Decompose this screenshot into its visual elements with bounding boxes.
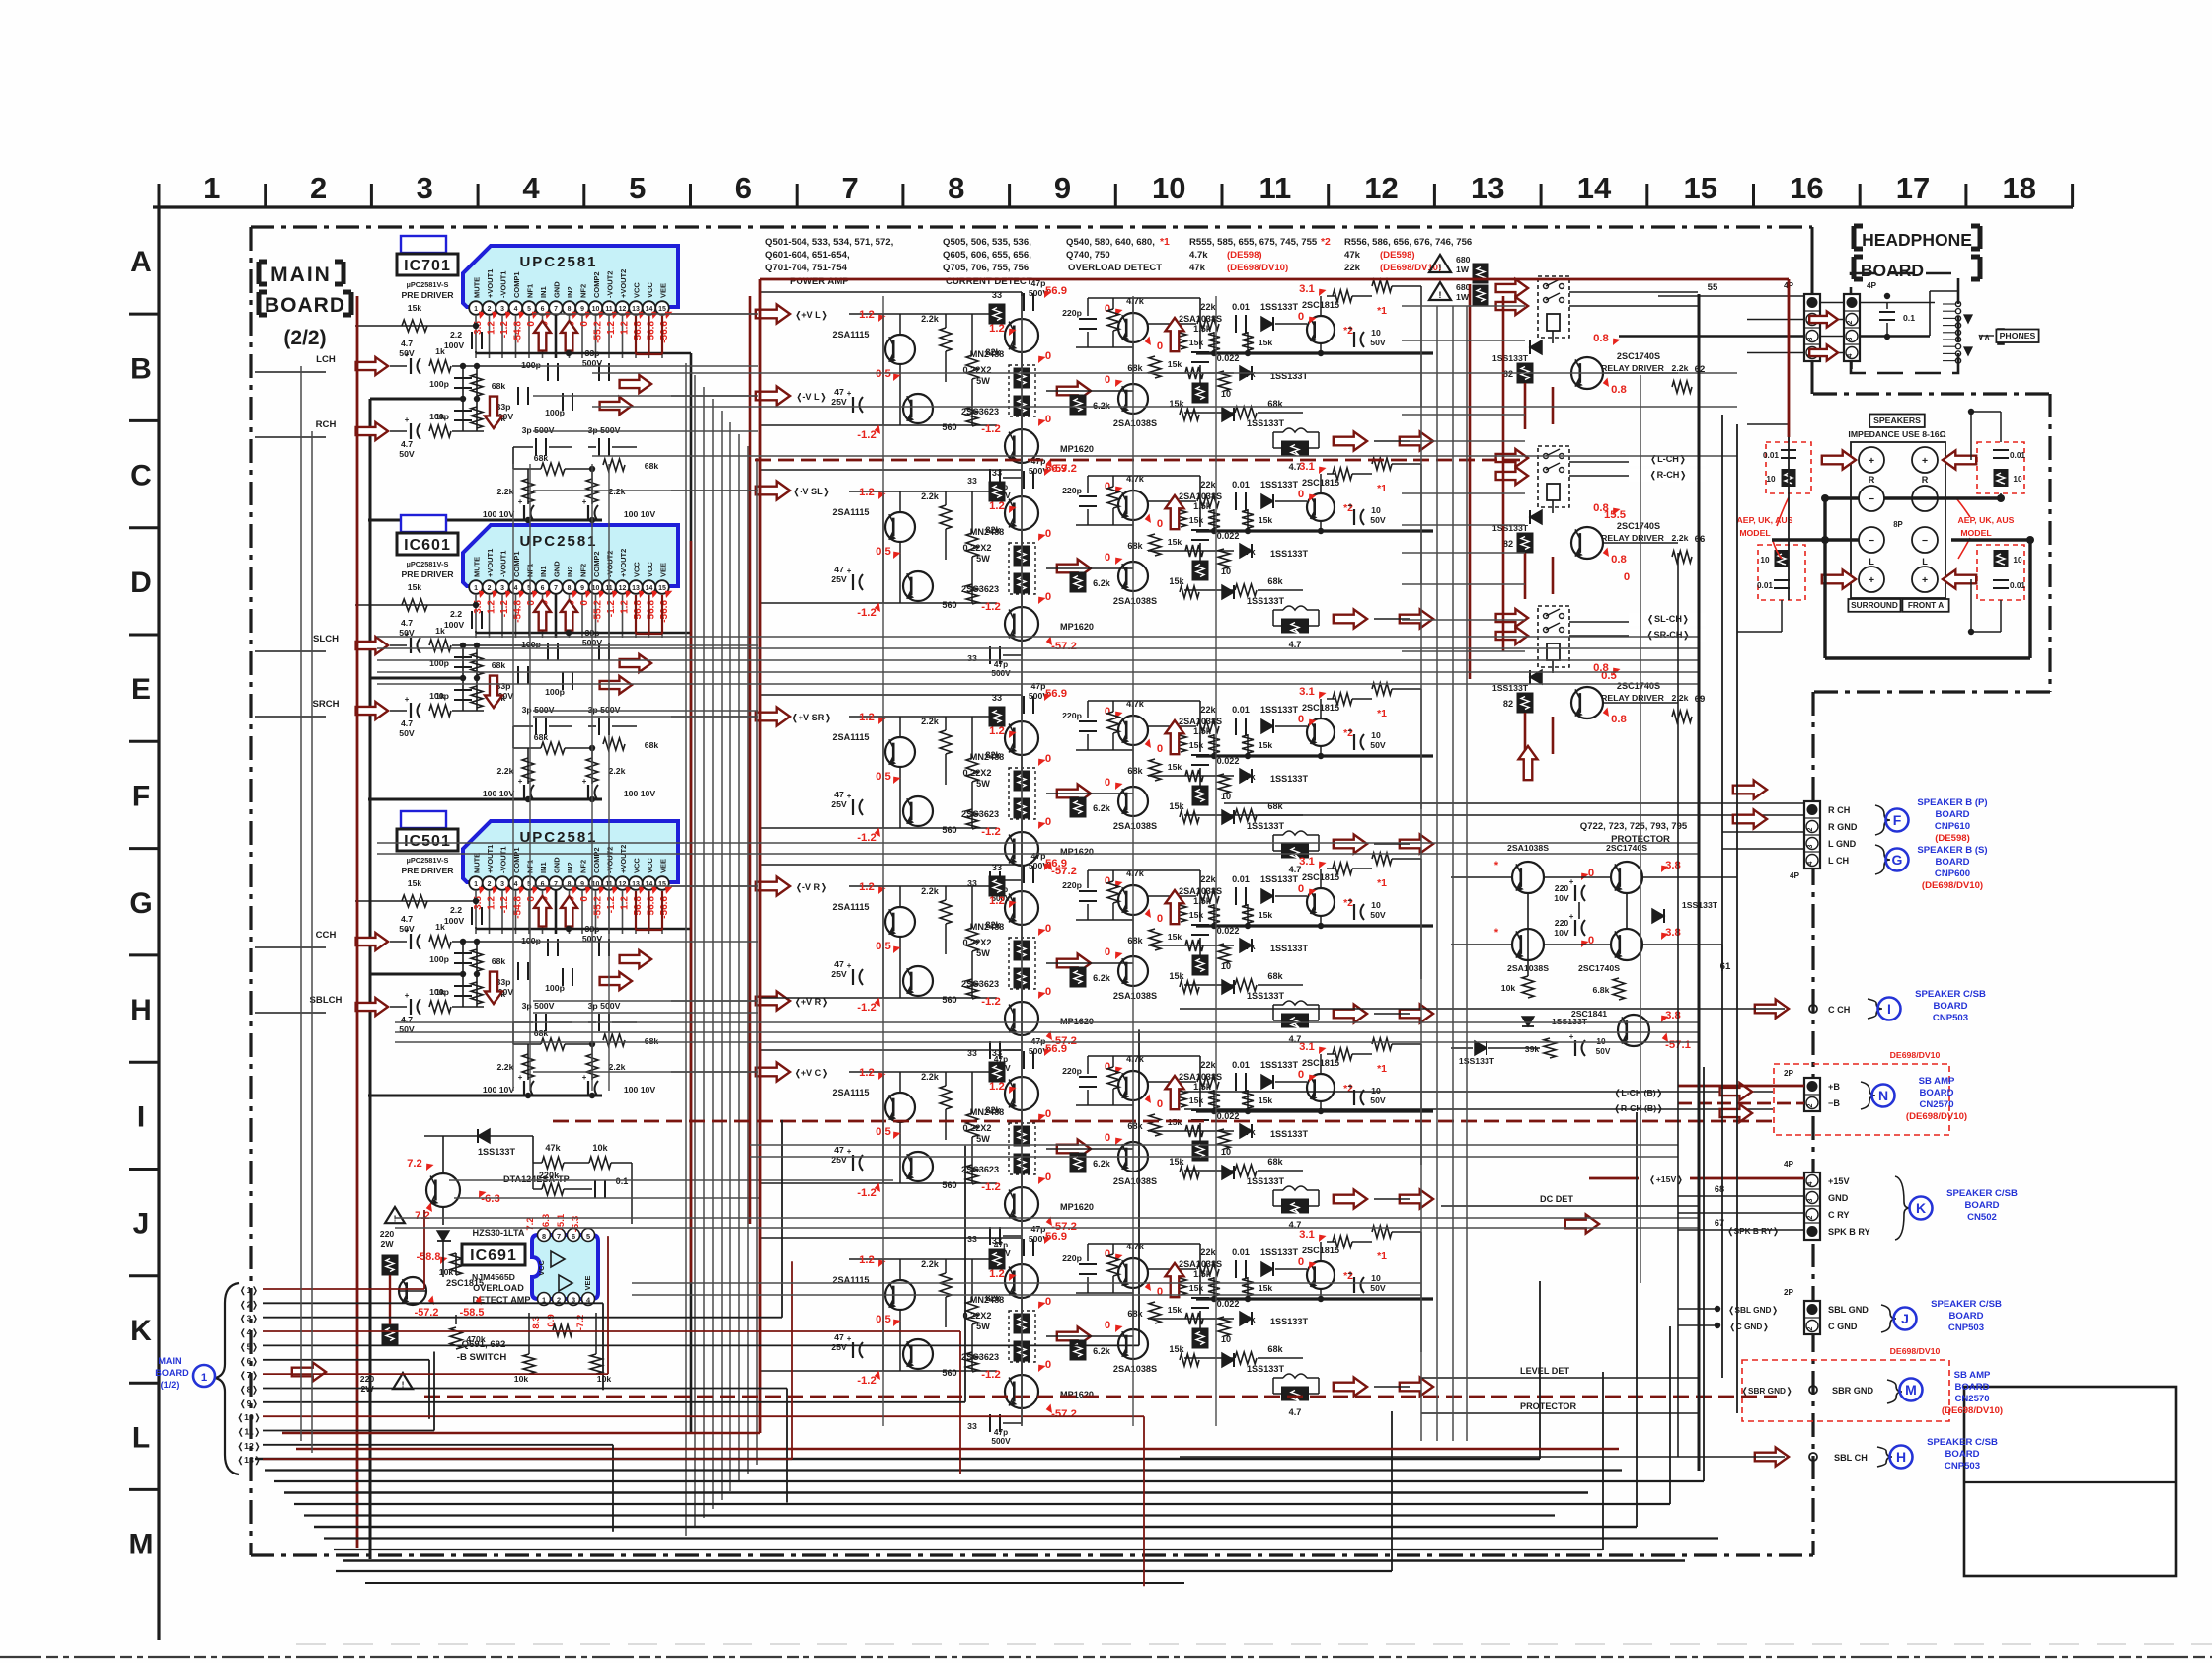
svg-text:6.2k: 6.2k [1093, 1346, 1111, 1356]
svg-text:560: 560 [942, 422, 956, 432]
svg-text:FRONT A: FRONT A [1908, 601, 1944, 610]
svg-text:220p: 220p [1062, 880, 1082, 890]
svg-text:22k: 22k [1200, 705, 1216, 715]
svg-text:68k: 68k [534, 453, 549, 463]
svg-text:10: 10 [592, 585, 600, 592]
svg-text:3: 3 [1807, 1198, 1814, 1202]
svg-text:R GND: R GND [1828, 822, 1858, 832]
svg-text:MUTE: MUTE [473, 277, 482, 298]
svg-text:Q722, 723, 725, 793, 795: Q722, 723, 725, 793, 795 [1580, 821, 1688, 832]
svg-text:0.01: 0.01 [1232, 1247, 1250, 1257]
svg-text:-54.8: -54.8 [513, 896, 524, 919]
svg-text:+: + [518, 777, 523, 786]
svg-text:SBLCH: SBLCH [310, 995, 343, 1006]
svg-text:+VOUT2: +VOUT2 [619, 845, 628, 873]
svg-text:MP1620: MP1620 [1060, 1017, 1094, 1026]
svg-text:+: + [1348, 1082, 1353, 1091]
svg-text:68k: 68k [1127, 1309, 1143, 1319]
svg-text:VEE: VEE [659, 283, 668, 298]
svg-text:1SS133T: 1SS133T [1492, 353, 1529, 363]
svg-text:MAIN: MAIN [158, 1356, 181, 1366]
svg-text:OVERLOAD DETECT: OVERLOAD DETECT [1068, 263, 1162, 273]
svg-text:13: 13 [632, 881, 640, 888]
svg-text:1k: 1k [435, 987, 445, 997]
svg-text:L GND: L GND [1828, 839, 1857, 849]
svg-text:13: 13 [632, 306, 640, 313]
svg-text:68k: 68k [645, 1036, 659, 1046]
svg-text:3: 3 [500, 585, 504, 592]
svg-text:22k: 22k [1200, 302, 1216, 312]
svg-text:68k: 68k [534, 1028, 549, 1038]
svg-text:12: 12 [1364, 171, 1398, 205]
svg-text:0.8: 0.8 [1611, 554, 1627, 566]
svg-text:-B SWITCH: -B SWITCH [457, 1352, 507, 1363]
svg-text:(DE598): (DE598) [1935, 833, 1970, 844]
svg-text:2.2k: 2.2k [497, 487, 514, 496]
svg-text:❬+V SR❭: ❬+V SR❭ [791, 713, 832, 723]
svg-text:❬7❭: ❬7❭ [239, 1370, 258, 1381]
svg-text:❬1❭: ❬1❭ [239, 1285, 258, 1296]
svg-text:SBR GND: SBR GND [1832, 1386, 1873, 1396]
svg-text:10k: 10k [439, 1267, 454, 1277]
svg-text:PRE DRIVER: PRE DRIVER [401, 866, 454, 875]
svg-text:3.1: 3.1 [1299, 283, 1315, 295]
svg-text:❬-V R❭: ❬-V R❭ [795, 882, 828, 893]
svg-text:DE698/DV10: DE698/DV10 [1890, 1050, 1941, 1060]
svg-text:56.8: 56.8 [633, 321, 644, 340]
svg-text:1.2: 1.2 [859, 487, 875, 498]
svg-text:+15V: +15V [1828, 1176, 1850, 1186]
svg-text:0.01: 0.01 [1232, 1060, 1250, 1070]
svg-text:SBL GND: SBL GND [1828, 1305, 1869, 1315]
svg-text:2: 2 [1847, 320, 1854, 324]
svg-text:1SS133T: 1SS133T [1270, 549, 1308, 559]
svg-text:0.01: 0.01 [1232, 480, 1250, 490]
svg-text:*1: *1 [1377, 306, 1387, 317]
svg-text:82: 82 [1503, 539, 1513, 549]
svg-text:33: 33 [992, 1048, 1002, 1058]
svg-text:❬SR-CH❭: ❬SR-CH❭ [1646, 630, 1690, 641]
svg-text:2SA1115: 2SA1115 [832, 1088, 869, 1097]
svg-text:56.8: 56.8 [633, 600, 644, 620]
svg-text:Q540, 580, 640, 680,: Q540, 580, 640, 680, [1066, 237, 1155, 248]
svg-text:❬8❭: ❬8❭ [239, 1385, 258, 1396]
svg-text:C GND: C GND [1828, 1322, 1858, 1331]
svg-text:-56.6: -56.6 [659, 600, 670, 623]
svg-text:4: 4 [514, 881, 518, 888]
svg-text:❬R-CH❭: ❬R-CH❭ [1649, 470, 1687, 481]
svg-text:-55.2: -55.2 [593, 321, 604, 343]
svg-text:0: 0 [1045, 923, 1051, 935]
svg-text:10V: 10V [1554, 893, 1569, 903]
svg-text:R555, 585, 655, 675, 745, 755: R555, 585, 655, 675, 745, 755 [1189, 237, 1318, 248]
svg-text:50V: 50V [399, 728, 415, 738]
svg-text:50V: 50V [1370, 910, 1386, 920]
svg-text:MUTE: MUTE [473, 853, 482, 873]
svg-text:1k: 1k [435, 691, 445, 701]
svg-text:47: 47 [834, 959, 844, 969]
svg-text:1SS133T: 1SS133T [1270, 774, 1308, 784]
svg-text:0: 0 [1157, 1286, 1163, 1298]
svg-text:-1.2: -1.2 [499, 896, 510, 914]
svg-text:2: 2 [488, 306, 492, 313]
svg-text:M: M [1905, 1382, 1917, 1398]
svg-text:0.01: 0.01 [2010, 581, 2025, 590]
svg-text:4.7: 4.7 [1289, 1407, 1302, 1417]
svg-text:+: + [847, 1334, 852, 1343]
svg-text:33: 33 [967, 1421, 977, 1431]
svg-text:Q605, 606, 655, 656,: Q605, 606, 655, 656, [943, 250, 1031, 261]
svg-text:220k: 220k [539, 1171, 560, 1180]
svg-text:IN2: IN2 [566, 566, 574, 577]
svg-text:4.7: 4.7 [401, 718, 413, 728]
svg-text:-VOUT2: -VOUT2 [606, 551, 615, 577]
svg-text:14: 14 [646, 585, 653, 592]
svg-text:15k: 15k [1169, 1344, 1184, 1354]
svg-text:14: 14 [646, 306, 653, 313]
svg-text:L: L [1869, 557, 1874, 567]
svg-text:1SS133T: 1SS133T [1247, 596, 1284, 606]
svg-text:GND: GND [553, 857, 562, 873]
svg-text:0.22X2: 0.22X2 [963, 938, 992, 947]
svg-text:L CH: L CH [1828, 856, 1849, 866]
svg-text:1SS133T: 1SS133T [478, 1147, 515, 1157]
svg-text:(DE698/DV10): (DE698/DV10) [1942, 1405, 2003, 1416]
svg-text:33: 33 [992, 693, 1002, 703]
svg-text:47: 47 [834, 790, 844, 799]
svg-text:6: 6 [572, 1232, 575, 1241]
svg-text:-1.2: -1.2 [981, 826, 1000, 838]
svg-text:❬SPK B RY❭: ❬SPK B RY❭ [1727, 1227, 1780, 1237]
svg-text:50V: 50V [399, 924, 415, 934]
svg-text:15k: 15k [1169, 971, 1184, 981]
svg-text:NF2: NF2 [579, 860, 588, 873]
svg-text:1.2: 1.2 [859, 309, 875, 321]
svg-text:10: 10 [1371, 1273, 1381, 1283]
svg-text:COMP2: COMP2 [592, 271, 601, 298]
svg-text:15k: 15k [1168, 932, 1182, 942]
svg-text:(DE698/DV10): (DE698/DV10) [1906, 1111, 1967, 1122]
svg-text:-54.8: -54.8 [513, 321, 524, 343]
svg-text:❬+V C❭: ❬+V C❭ [794, 1068, 829, 1079]
svg-text:56.8: 56.8 [633, 896, 644, 916]
svg-text:0: 0 [1045, 1172, 1051, 1183]
svg-text:1.2: 1.2 [989, 323, 1005, 335]
svg-text:SLCH: SLCH [313, 634, 339, 644]
svg-text:2SA1038S: 2SA1038S [1113, 991, 1157, 1001]
svg-text:2SC1841: 2SC1841 [1571, 1009, 1607, 1019]
svg-text:6.2k: 6.2k [1093, 803, 1111, 813]
svg-text:MN2488: MN2488 [970, 922, 1005, 932]
svg-text:47k: 47k [1344, 250, 1361, 261]
svg-text:82: 82 [1503, 699, 1513, 709]
svg-text:2: 2 [1807, 827, 1814, 831]
svg-text:BOARD: BOARD [1933, 1001, 1967, 1012]
svg-text:0: 0 [526, 896, 537, 902]
svg-text:68k: 68k [534, 732, 549, 742]
svg-text:0: 0 [1157, 743, 1163, 755]
svg-text:15k: 15k [1168, 359, 1182, 369]
svg-text:10k: 10k [1501, 983, 1516, 993]
svg-text:+: + [405, 695, 410, 704]
svg-text:15k: 15k [1189, 1283, 1204, 1293]
svg-text:-1.2: -1.2 [981, 996, 1000, 1008]
svg-text:SPEAKER C/SB: SPEAKER C/SB [1915, 989, 1986, 1000]
svg-text:IN1: IN1 [539, 862, 548, 873]
svg-text:0: 0 [1105, 1248, 1110, 1260]
svg-text:DC DET: DC DET [1540, 1194, 1573, 1204]
svg-text:100V: 100V [444, 620, 464, 630]
svg-text:100 10V: 100 10V [483, 509, 515, 519]
svg-text:5W: 5W [976, 948, 990, 958]
svg-text:5W: 5W [976, 1134, 990, 1144]
svg-text:MODEL: MODEL [1960, 528, 1992, 538]
svg-text:10: 10 [592, 881, 600, 888]
svg-text:10k: 10k [514, 1374, 529, 1384]
svg-text:CNP503: CNP503 [1948, 1323, 1984, 1333]
svg-text:680: 680 [1456, 282, 1471, 292]
svg-text:0.1: 0.1 [1903, 313, 1915, 323]
svg-text:1.2: 1.2 [989, 500, 1005, 512]
svg-text:68k: 68k [1127, 1121, 1143, 1131]
svg-text:IC701: IC701 [404, 258, 451, 274]
svg-text:50V: 50V [1370, 740, 1386, 750]
svg-text:1.2: 1.2 [620, 600, 631, 614]
svg-text:2.2: 2.2 [450, 609, 462, 619]
svg-text:1: 1 [201, 1372, 207, 1384]
svg-text:7: 7 [557, 1232, 561, 1241]
svg-text:220p: 220p [1062, 711, 1082, 720]
svg-text:BOARD: BOARD [1935, 857, 1969, 868]
svg-text:1k: 1k [435, 346, 445, 356]
svg-text:R: R [1922, 475, 1929, 485]
svg-text:15: 15 [658, 306, 666, 313]
svg-text:*: * [1494, 860, 1499, 871]
svg-text:15k: 15k [1259, 338, 1273, 347]
svg-text:15k: 15k [1169, 801, 1184, 811]
svg-text:0.22X2: 0.22X2 [963, 768, 992, 778]
svg-text:1.2: 1.2 [989, 1081, 1005, 1093]
svg-text:56.8: 56.8 [647, 321, 657, 340]
svg-text:100 10V: 100 10V [624, 509, 656, 519]
svg-text:HEADPHONE: HEADPHONE [1862, 230, 1972, 250]
svg-text:MP1620: MP1620 [1060, 444, 1094, 454]
svg-text:0: 0 [1105, 1061, 1110, 1073]
svg-text:1SS133T: 1SS133T [1270, 1129, 1308, 1139]
svg-text:3.1: 3.1 [1299, 686, 1315, 698]
svg-text:0.8: 0.8 [1611, 714, 1627, 725]
svg-text:9: 9 [1054, 171, 1071, 205]
svg-text:+B: +B [1828, 1082, 1840, 1092]
svg-text:9: 9 [580, 306, 584, 313]
svg-text:H: H [1896, 1449, 1906, 1465]
svg-text:220p: 220p [1062, 486, 1082, 495]
svg-text:IC601: IC601 [404, 537, 451, 554]
svg-text:12: 12 [619, 306, 627, 313]
svg-text:0.22X2: 0.22X2 [963, 543, 992, 553]
svg-text:33p: 33p [585, 348, 600, 358]
svg-text:68k: 68k [1267, 971, 1283, 981]
svg-text:-1.2: -1.2 [857, 832, 876, 844]
svg-text:(1/2): (1/2) [161, 1380, 180, 1390]
svg-text:100p: 100p [545, 687, 565, 697]
svg-text:1SS133T: 1SS133T [1247, 1364, 1284, 1374]
svg-text:2SC1740S: 2SC1740S [1617, 681, 1660, 691]
svg-text:+VOUT2: +VOUT2 [619, 269, 628, 298]
svg-text:❬R-CH (B)❭: ❬R-CH (B)❭ [1614, 1103, 1664, 1114]
svg-text:68k: 68k [1267, 576, 1283, 586]
svg-text:CNP610: CNP610 [1935, 821, 1970, 832]
svg-text:2.2: 2.2 [450, 905, 462, 915]
svg-text:-VOUT1: -VOUT1 [499, 847, 508, 873]
svg-text:+: + [847, 389, 852, 398]
svg-text:68k: 68k [492, 381, 506, 391]
svg-text:2SA1038S: 2SA1038S [1113, 1176, 1157, 1186]
svg-text:+VOUT2: +VOUT2 [619, 549, 628, 577]
svg-text:2: 2 [1807, 1215, 1814, 1219]
svg-text:1.2: 1.2 [989, 725, 1005, 737]
svg-text:❬5❭: ❬5❭ [239, 1341, 258, 1352]
svg-text:4: 4 [522, 171, 540, 205]
svg-text:Q705, 706, 755, 756: Q705, 706, 755, 756 [943, 263, 1029, 273]
svg-text:3: 3 [1847, 337, 1854, 340]
svg-text:50V: 50V [1596, 1047, 1611, 1056]
svg-text:15k: 15k [1189, 910, 1204, 920]
svg-text:10k: 10k [597, 1374, 612, 1384]
svg-text:−: − [1869, 536, 1874, 547]
svg-text:1: 1 [474, 881, 478, 888]
svg-text:*1: *1 [1377, 709, 1387, 719]
svg-text:-1.2: -1.2 [857, 1375, 876, 1387]
svg-text:+VOUT1: +VOUT1 [486, 845, 495, 873]
svg-text:2SC1740S: 2SC1740S [1578, 963, 1620, 973]
svg-text:7: 7 [554, 306, 558, 313]
svg-text:+: + [1348, 726, 1353, 735]
svg-text:2: 2 [1807, 1103, 1814, 1107]
svg-text:11: 11 [1259, 171, 1292, 205]
svg-text:µPC2581V-S: µPC2581V-S [407, 856, 449, 865]
svg-text:0: 0 [579, 321, 590, 327]
svg-text:2SA1038S: 2SA1038S [1113, 596, 1157, 606]
svg-text:Q501-504, 533, 534, 571, 572,: Q501-504, 533, 534, 571, 572, [765, 237, 894, 248]
svg-text:-1.2: -1.2 [981, 423, 1000, 435]
svg-text:-1.2: -1.2 [981, 1369, 1000, 1381]
svg-text:0: 0 [1298, 1256, 1304, 1268]
svg-text:8P: 8P [1893, 520, 1903, 529]
svg-text:0: 0 [1045, 414, 1051, 425]
svg-text:(DE598): (DE598) [1380, 250, 1415, 261]
svg-text:+: + [582, 497, 587, 506]
svg-text:56.9: 56.9 [1045, 858, 1067, 869]
svg-text:4.7k: 4.7k [1189, 250, 1208, 261]
svg-text:3: 3 [500, 306, 504, 313]
svg-text:4P: 4P [1790, 871, 1800, 880]
svg-text:11: 11 [605, 306, 612, 313]
svg-text:6: 6 [541, 585, 545, 592]
svg-text:10: 10 [1766, 475, 1776, 484]
svg-text:100V: 100V [444, 340, 464, 350]
svg-text:MP1620: MP1620 [1060, 622, 1094, 632]
svg-text:E: E [131, 673, 151, 706]
svg-text:SB AMP: SB AMP [1954, 1370, 1991, 1381]
svg-text:+: + [1569, 912, 1574, 921]
svg-text:7: 7 [554, 881, 558, 888]
svg-text:15k: 15k [408, 303, 422, 313]
svg-text:55: 55 [1708, 282, 1718, 293]
svg-text:❬13❭: ❬13❭ [237, 1455, 261, 1466]
svg-text:0: 0 [1105, 777, 1110, 789]
svg-text:0: 0 [1045, 1108, 1051, 1120]
svg-text:COMP2: COMP2 [592, 551, 601, 577]
svg-text:F: F [132, 781, 150, 813]
svg-text:0: 0 [1624, 571, 1630, 583]
svg-text:68k: 68k [1127, 936, 1143, 945]
svg-text:2W: 2W [380, 1239, 394, 1248]
svg-text:GND: GND [553, 281, 562, 298]
svg-text:SPEAKER C/SB: SPEAKER C/SB [1927, 1437, 1998, 1448]
svg-text:2.2k: 2.2k [609, 766, 626, 776]
svg-text:1: 1 [474, 306, 478, 313]
svg-text:82: 82 [1503, 369, 1513, 379]
svg-text:*1: *1 [1160, 237, 1170, 248]
svg-text:0.8: 0.8 [1593, 333, 1609, 344]
svg-text:*2: *2 [1321, 237, 1331, 248]
svg-text:3p 500V: 3p 500V [588, 425, 621, 435]
svg-text:47p: 47p [994, 660, 1008, 669]
svg-text:0.1: 0.1 [616, 1176, 629, 1186]
svg-text:68k: 68k [645, 740, 659, 750]
svg-text:0: 0 [1105, 1320, 1110, 1331]
svg-text:1SS133T: 1SS133T [1459, 1056, 1495, 1066]
svg-text:0: 0 [1105, 303, 1110, 315]
svg-text:4: 4 [514, 306, 518, 313]
svg-text:0.01: 0.01 [2010, 451, 2025, 460]
svg-text:Q505, 506, 535, 536,: Q505, 506, 535, 536, [943, 237, 1031, 248]
svg-text:DE698/DV10: DE698/DV10 [1890, 1346, 1941, 1356]
svg-text:IMPEDANCE USE 8-16Ω: IMPEDANCE USE 8-16Ω [1848, 429, 1945, 439]
svg-text:3: 3 [500, 881, 504, 888]
svg-text:SPK B RY: SPK B RY [1828, 1227, 1870, 1237]
svg-text:2.2k: 2.2k [609, 487, 626, 496]
svg-text:560: 560 [942, 825, 956, 835]
svg-text:15k: 15k [408, 878, 422, 888]
svg-text:C RY: C RY [1828, 1210, 1849, 1220]
svg-text:7: 7 [554, 585, 558, 592]
svg-text:560: 560 [942, 1180, 956, 1190]
svg-text:2: 2 [1807, 1326, 1814, 1330]
svg-text:Q701-704, 751-754: Q701-704, 751-754 [765, 263, 848, 273]
svg-text:56.9: 56.9 [1045, 1231, 1067, 1243]
svg-text:2.2k: 2.2k [921, 1072, 940, 1082]
svg-text:R556, 586, 656, 676, 746, 756: R556, 586, 656, 676, 746, 756 [1344, 237, 1472, 248]
svg-text:6.2k: 6.2k [1093, 1159, 1111, 1169]
svg-text:47p: 47p [1031, 1036, 1046, 1046]
svg-text:C CH: C CH [1828, 1005, 1850, 1015]
svg-text:6.2k: 6.2k [1093, 578, 1111, 588]
svg-text:PROTECTOR: PROTECTOR [1520, 1401, 1577, 1411]
svg-text:1.2: 1.2 [859, 1254, 875, 1266]
svg-text:NF2: NF2 [579, 284, 588, 298]
svg-text:+: + [405, 991, 410, 1000]
svg-text:10k: 10k [592, 1143, 608, 1153]
svg-text:MODEL: MODEL [1739, 528, 1771, 538]
svg-text:10: 10 [592, 306, 600, 313]
svg-text:0: 0 [1298, 489, 1304, 500]
svg-text:GND: GND [1828, 1193, 1849, 1203]
svg-text:100 10V: 100 10V [624, 789, 656, 798]
svg-text:AEP, UK, AUS: AEP, UK, AUS [1737, 515, 1793, 525]
svg-text:BOARD: BOARD [1919, 1088, 1953, 1098]
